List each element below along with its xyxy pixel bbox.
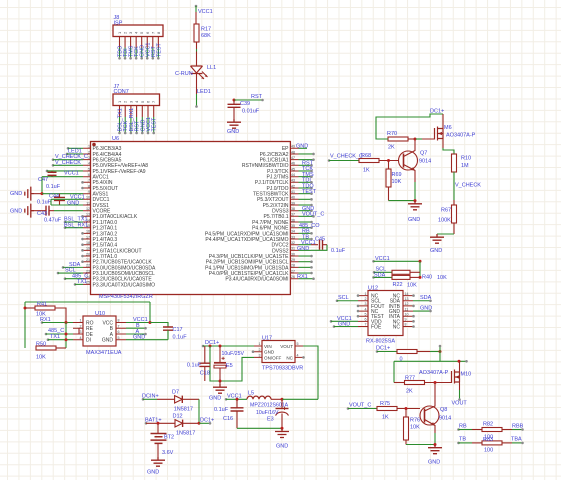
wire DC1+ loop to ON/OFF bbox=[210, 346, 254, 381]
svg-text:BT2: BT2 bbox=[164, 435, 174, 441]
svg-text:U6: U6 bbox=[112, 136, 119, 142]
wire C16 bottom to GND node bbox=[237, 427, 282, 429]
wire pin40 stub bbox=[299, 198, 312, 200]
resistor R67 100K bbox=[453, 200, 455, 205]
ground U17 bbox=[219, 381, 221, 384]
svg-text:R70: R70 bbox=[387, 131, 397, 137]
svg-text:1: 1 bbox=[80, 319, 82, 323]
svg-text:44: 44 bbox=[291, 173, 295, 177]
svg-text:P3.3/UCA0TXD/UCA0SIMO: P3.3/UCA0TXD/UCA0SIMO bbox=[93, 282, 156, 288]
J7 pin wires bbox=[119, 106, 121, 118]
svg-text:68K: 68K bbox=[201, 33, 211, 39]
svg-text:DC1+: DC1+ bbox=[376, 345, 390, 351]
svg-text:14: 14 bbox=[405, 292, 409, 296]
ground R67 bbox=[430, 234, 444, 243]
svg-text:47: 47 bbox=[291, 156, 295, 160]
svg-text:4: 4 bbox=[297, 354, 299, 358]
wire R76 to GND rail bbox=[405, 440, 407, 445]
connector J7 CON7 bbox=[113, 94, 160, 106]
svg-text:E5: E5 bbox=[226, 363, 233, 369]
resistor R69 10K bbox=[388, 161, 390, 170]
svg-text:17: 17 bbox=[86, 235, 90, 239]
net TB bbox=[457, 442, 460, 445]
svg-text:37: 37 bbox=[291, 213, 295, 217]
net VCC1 DVCC1 pin10 bbox=[51, 198, 83, 200]
net TX1 to U10 bbox=[47, 338, 50, 341]
svg-text:C39: C39 bbox=[240, 101, 250, 107]
svg-text:2: 2 bbox=[259, 348, 261, 352]
wire pin7 XIN stub bbox=[81, 181, 84, 184]
wire D7 to DC1+ node bbox=[182, 398, 199, 400]
wire R17 to LED bbox=[196, 42, 198, 49]
net DC1+ at U17 bbox=[202, 345, 205, 348]
svg-text:22: 22 bbox=[86, 264, 90, 268]
svg-text:2K: 2K bbox=[406, 389, 413, 395]
junction gate collector bbox=[434, 381, 437, 384]
svg-text:TEST: TEST bbox=[156, 43, 162, 57]
svg-text:13: 13 bbox=[405, 297, 409, 301]
net VOUT_C bbox=[347, 407, 350, 410]
svg-text:35: 35 bbox=[291, 224, 295, 228]
junction R68 R69 bbox=[387, 159, 390, 162]
svg-text:4: 4 bbox=[365, 307, 367, 311]
svg-text:C43: C43 bbox=[37, 211, 47, 217]
svg-text:3: 3 bbox=[80, 330, 82, 334]
junction Q7 collector R70 bbox=[414, 138, 417, 141]
svg-text:RBB: RBB bbox=[512, 423, 524, 429]
svg-text:6: 6 bbox=[118, 330, 120, 334]
wire VCC1 rail down bbox=[419, 261, 421, 277]
LED LL1 C-RUN bbox=[191, 66, 203, 74]
svg-text:21: 21 bbox=[86, 258, 90, 262]
junction AVSS1 GND bbox=[41, 192, 44, 195]
svg-text:RB: RB bbox=[459, 423, 467, 429]
svg-text:P3.4/UCA0RXD/UCA0SOMI: P3.4/UCA0RXD/UCA0SOMI bbox=[225, 277, 288, 283]
junction BAT1 BT2 bbox=[157, 422, 160, 425]
wire pin36 stub bbox=[299, 221, 312, 223]
net LED1 pin2 bbox=[66, 153, 69, 156]
net SDA to R40 bbox=[372, 276, 375, 279]
junction C18 top bbox=[209, 345, 212, 348]
wire pin13 stub bbox=[81, 215, 84, 218]
net RBB bbox=[502, 429, 512, 431]
svg-text:M6: M6 bbox=[444, 125, 452, 131]
svg-text:GND: GND bbox=[209, 396, 221, 402]
svg-text:9: 9 bbox=[88, 190, 90, 194]
svg-text:36: 36 bbox=[291, 218, 295, 222]
junction base R76 bbox=[405, 407, 408, 410]
resistor R22 10K bbox=[392, 270, 410, 274]
svg-text:VCC1: VCC1 bbox=[375, 256, 390, 262]
svg-text:R77: R77 bbox=[405, 376, 415, 382]
junction TX1 bbox=[65, 338, 68, 341]
svg-text:0.01uF: 0.01uF bbox=[242, 109, 260, 115]
svg-text:NC: NC bbox=[393, 324, 401, 330]
svg-text:10: 10 bbox=[86, 196, 90, 200]
mosfet M6 AO3407A-P bbox=[435, 127, 444, 141]
svg-text:U17: U17 bbox=[262, 335, 272, 341]
battery BT2 3.6V bbox=[157, 423, 159, 433]
svg-text:10uF/16V: 10uF/16V bbox=[256, 410, 279, 416]
svg-text:GND: GND bbox=[147, 470, 159, 476]
net RX1 to U10 bbox=[41, 321, 44, 324]
wire VCC1 to C17 bbox=[150, 323, 168, 328]
svg-text:10K: 10K bbox=[437, 275, 447, 281]
svg-text:9014: 9014 bbox=[419, 158, 431, 164]
wires pins30-27 stubs bbox=[299, 255, 312, 257]
svg-text:1K: 1K bbox=[363, 168, 370, 174]
diode D12 1N5817 bbox=[175, 420, 183, 427]
svg-text:0.1uF: 0.1uF bbox=[331, 248, 346, 254]
svg-text:L5: L5 bbox=[248, 390, 254, 396]
wire pin48 stub bbox=[299, 153, 314, 155]
svg-text:LED1: LED1 bbox=[197, 89, 211, 95]
ground left of C43 bbox=[25, 204, 34, 218]
wire pin39 stub bbox=[299, 204, 312, 206]
svg-text:2K: 2K bbox=[388, 145, 395, 151]
resistor R83 100 bbox=[472, 442, 482, 444]
svg-text:46: 46 bbox=[291, 162, 295, 166]
svg-text:41: 41 bbox=[291, 190, 295, 194]
net SCL pin23 bbox=[57, 272, 60, 275]
svg-text:29: 29 bbox=[291, 258, 295, 262]
svg-text:20: 20 bbox=[86, 252, 90, 256]
resistor R10 1M bbox=[452, 154, 457, 172]
MCU U6 MSP430F5342IRGZR body bbox=[91, 142, 291, 295]
wire R77 to gate bbox=[425, 382, 452, 384]
svg-text:11: 11 bbox=[86, 201, 90, 205]
svg-text:SCL: SCL bbox=[338, 295, 349, 301]
svg-text:2: 2 bbox=[365, 297, 367, 301]
svg-text:LL1: LL1 bbox=[207, 65, 216, 71]
svg-text:33: 33 bbox=[291, 235, 295, 239]
svg-text:V_CHECK_C: V_CHECK_C bbox=[330, 153, 363, 159]
net V_CHECK pin4 bbox=[52, 164, 55, 167]
net VCC1 U12 pin6 bbox=[330, 320, 333, 323]
capacitor E5 10uF/25V polarized bbox=[219, 346, 221, 362]
net GND pin31 bbox=[299, 249, 312, 251]
svg-text:DC1+: DC1+ bbox=[430, 108, 444, 114]
net TBA bbox=[502, 442, 512, 444]
svg-text:R67: R67 bbox=[441, 208, 451, 214]
svg-text:6: 6 bbox=[88, 173, 90, 177]
junction VCC1 U10 bbox=[149, 321, 152, 324]
net VOUT_C pin37 bbox=[299, 215, 314, 217]
svg-text:R17: R17 bbox=[201, 27, 211, 33]
svg-text:12: 12 bbox=[405, 302, 409, 306]
svg-text:D12: D12 bbox=[173, 414, 183, 420]
wire VCC1 down to GND junction bbox=[41, 177, 43, 194]
svg-text:R68: R68 bbox=[361, 153, 371, 159]
svg-text:GND: GND bbox=[67, 200, 79, 206]
wire vertical RO-DI tie bbox=[65, 323, 67, 349]
svg-text:0.1uF: 0.1uF bbox=[46, 184, 61, 190]
net GND pin38 bbox=[299, 210, 312, 212]
resistor R 0 ohm bbox=[397, 350, 417, 354]
svg-text:V_CHECK: V_CHECK bbox=[455, 183, 481, 189]
net TEST pin41 bbox=[299, 193, 312, 195]
IC U10 MAX3471EUA body bbox=[83, 316, 116, 346]
svg-text:18: 18 bbox=[86, 241, 90, 245]
wire M10 drain to VOUT bbox=[459, 382, 461, 390]
svg-text:7: 7 bbox=[118, 324, 120, 328]
wire RE-DE tie bbox=[78, 328, 80, 334]
junction 485_C bbox=[65, 333, 68, 336]
net 485_C to U10 bbox=[45, 333, 48, 336]
svg-text:R22: R22 bbox=[393, 282, 403, 288]
wire VCC1 to R17 bbox=[195, 12, 197, 24]
net SDA pin22 bbox=[62, 266, 65, 269]
svg-text:GND: GND bbox=[428, 460, 440, 466]
svg-text:TEST: TEST bbox=[302, 189, 317, 195]
junction E3 top bbox=[281, 398, 284, 401]
svg-text:D7: D7 bbox=[172, 390, 179, 396]
svg-text:DC1+: DC1+ bbox=[200, 418, 214, 424]
net TB pin33 bbox=[299, 238, 312, 240]
svg-text:10uF/25V: 10uF/25V bbox=[222, 351, 245, 357]
resistor R82 100 bbox=[472, 429, 482, 431]
svg-text:R83: R83 bbox=[483, 437, 493, 443]
junction emitter GND bbox=[414, 199, 417, 202]
capacitor C39 0.01uF bbox=[233, 100, 235, 104]
U6 left pin leads bbox=[83, 148, 91, 284]
net VCC1 top bbox=[195, 5, 198, 8]
svg-text:U10: U10 bbox=[95, 311, 105, 317]
svg-text:9014: 9014 bbox=[439, 415, 451, 421]
net TDO pin42 bbox=[299, 187, 312, 189]
svg-text:TB: TB bbox=[459, 437, 466, 443]
svg-text:TX1: TX1 bbox=[77, 279, 87, 285]
net GND U12 pin7 bbox=[333, 325, 336, 328]
svg-text:10K: 10K bbox=[392, 179, 402, 185]
wire VCORE pin12 bbox=[54, 210, 83, 212]
svg-text:R76: R76 bbox=[410, 418, 420, 424]
svg-text:VIN: VIN bbox=[264, 344, 272, 349]
ground Q8 bbox=[428, 445, 442, 454]
svg-text:M10: M10 bbox=[461, 372, 472, 378]
net GND EP pin49 bbox=[299, 147, 308, 149]
capacitor C18 0.1uF bbox=[204, 346, 206, 363]
junction Q8 emitter GND bbox=[434, 443, 437, 446]
svg-text:GND: GND bbox=[133, 335, 145, 341]
resistor R75 1K bbox=[377, 407, 397, 411]
svg-text:R82: R82 bbox=[483, 422, 493, 428]
wire R69 to GND rail bbox=[388, 187, 390, 201]
svg-text:DCIN+: DCIN+ bbox=[142, 394, 159, 400]
svg-text:MAX3471EUA: MAX3471EUA bbox=[86, 350, 122, 356]
svg-text:3: 3 bbox=[259, 354, 261, 358]
net SCL U12 pin2 bbox=[336, 299, 339, 302]
net 485_CO pin35 bbox=[299, 227, 312, 229]
junction RX1 R41 bbox=[65, 321, 68, 324]
svg-text:NC: NC bbox=[286, 355, 293, 360]
net TCK pin45 bbox=[299, 170, 312, 172]
svg-text:VCC1: VCC1 bbox=[64, 171, 79, 177]
svg-text:FOE: FOE bbox=[371, 324, 382, 330]
svg-text:R50: R50 bbox=[36, 341, 46, 347]
svg-text:16: 16 bbox=[86, 230, 90, 234]
wire R67 to GND bbox=[453, 223, 455, 234]
svg-text:1N5817: 1N5817 bbox=[174, 407, 193, 413]
svg-text:VOUT: VOUT bbox=[452, 401, 468, 407]
net DCIN+ bbox=[142, 398, 145, 401]
wire R41 right down bbox=[55, 308, 66, 323]
svg-text:100: 100 bbox=[484, 448, 493, 454]
svg-text:30: 30 bbox=[291, 252, 295, 256]
svg-text:DI: DI bbox=[86, 338, 91, 344]
svg-text:1N5817: 1N5817 bbox=[176, 431, 195, 437]
svg-text:10K: 10K bbox=[410, 425, 420, 431]
U12 pin1 stub bbox=[357, 294, 360, 297]
svg-text:34: 34 bbox=[291, 230, 295, 234]
svg-text:E3: E3 bbox=[267, 417, 274, 423]
mosfet M10 AO3407A-P bbox=[452, 370, 460, 384]
resistor R40 10K bbox=[392, 275, 410, 279]
svg-text:3: 3 bbox=[365, 302, 367, 306]
svg-text:VOUT: VOUT bbox=[280, 344, 293, 349]
wire node to VOUT riser bbox=[282, 398, 318, 400]
svg-text:R40: R40 bbox=[422, 275, 432, 281]
wire LED to LED1 net bbox=[196, 74, 198, 95]
svg-text:GND: GND bbox=[408, 217, 420, 223]
wire R68 to Q7 base bbox=[379, 160, 399, 162]
svg-text:8: 8 bbox=[118, 319, 120, 323]
svg-text:27: 27 bbox=[291, 269, 295, 273]
svg-text:RX-8025SA: RX-8025SA bbox=[366, 339, 395, 345]
net VCC1 AVCC1 pin6 bbox=[42, 176, 83, 178]
svg-text:3.6V: 3.6V bbox=[162, 450, 174, 456]
net RST pin46 bbox=[299, 164, 312, 166]
net DC1+ label bottom bbox=[199, 422, 209, 424]
junction M10 source bbox=[458, 360, 461, 363]
net VCC1 node bbox=[225, 398, 228, 401]
svg-text:Q8: Q8 bbox=[440, 407, 447, 413]
wire pin47 stub bbox=[299, 159, 314, 161]
net SCL to R22 bbox=[373, 271, 376, 274]
svg-text:4: 4 bbox=[88, 162, 90, 166]
svg-text:GND: GND bbox=[420, 306, 432, 312]
svg-text:45: 45 bbox=[291, 167, 295, 171]
svg-text:10: 10 bbox=[405, 312, 409, 316]
svg-text:8: 8 bbox=[88, 184, 90, 188]
wire AVSS1 pin9 bbox=[42, 193, 83, 195]
svg-text:6: 6 bbox=[365, 318, 367, 322]
inductor L5 MPZ2012S601A bbox=[247, 396, 271, 399]
net GND U10 pin5 bbox=[126, 339, 168, 341]
svg-text:5: 5 bbox=[118, 336, 120, 340]
capacitor C47 0.1uF bbox=[51, 171, 53, 172]
svg-text:C17: C17 bbox=[173, 327, 183, 333]
svg-text:0.1uF: 0.1uF bbox=[214, 407, 229, 413]
svg-text:R69: R69 bbox=[392, 172, 402, 178]
pins 16-21 stubs bbox=[81, 232, 84, 235]
svg-text:38: 38 bbox=[291, 207, 295, 211]
wire BT2 to GND bbox=[157, 443, 159, 457]
svg-text:1: 1 bbox=[88, 145, 90, 149]
svg-text:49: 49 bbox=[291, 145, 295, 149]
svg-text:GND: GND bbox=[10, 191, 22, 197]
net DC1+ bottom right bbox=[376, 350, 379, 353]
svg-text:R10: R10 bbox=[461, 156, 471, 162]
net TX1 pin25 bbox=[74, 283, 77, 286]
svg-text:2: 2 bbox=[80, 324, 82, 328]
net VCC1 U10 pin8 bbox=[126, 322, 150, 324]
wire pin1 P6.3 stub bbox=[67, 147, 70, 150]
net B U10 pin7 bbox=[126, 327, 145, 329]
wire D12 to DC1+ node bbox=[183, 422, 199, 424]
connector J8 ISP bbox=[113, 25, 163, 37]
junction R41 left bbox=[24, 307, 27, 310]
svg-text:1K: 1K bbox=[382, 414, 389, 420]
svg-text:VOUT_C: VOUT_C bbox=[302, 212, 324, 218]
net A U10 pin6 bbox=[126, 333, 145, 335]
U12 pin14 stub bbox=[412, 294, 415, 297]
wire rail down to VCC1 junction bbox=[149, 302, 151, 323]
ground E3 bbox=[275, 428, 289, 437]
svg-text:11: 11 bbox=[405, 307, 409, 311]
svg-text:RST: RST bbox=[251, 94, 263, 100]
net TMS pin44 bbox=[299, 176, 312, 178]
svg-text:C-RUN: C-RUN bbox=[175, 71, 193, 77]
U12 pins3-5 stubs bbox=[357, 305, 360, 308]
net BSL_RX1 pin15 bbox=[64, 226, 67, 229]
svg-text:TX1: TX1 bbox=[50, 334, 60, 340]
svg-text:28: 28 bbox=[291, 264, 295, 268]
J8 wire end dots bbox=[118, 57, 121, 60]
svg-text:0.1uF: 0.1uF bbox=[187, 363, 202, 369]
RTC U12 RX-8025SA body bbox=[368, 291, 403, 336]
svg-text:1: 1 bbox=[259, 342, 261, 346]
resistor R17 68K bbox=[194, 24, 199, 42]
svg-text:10K: 10K bbox=[407, 283, 417, 289]
net TDI pin43 bbox=[299, 181, 312, 183]
wire source rail bbox=[394, 360, 466, 362]
net SDA U12 pin13 bbox=[413, 300, 430, 302]
ground below C39 bbox=[227, 119, 241, 128]
capacitor C16 0.1uF bbox=[236, 399, 238, 408]
svg-text:100K: 100K bbox=[438, 217, 451, 223]
resistor R77 2K bbox=[405, 381, 425, 385]
LDO U17 TPS70933DBVR body bbox=[262, 341, 295, 363]
capacitor C45 0.1uF bbox=[311, 244, 318, 246]
svg-text:1M: 1M bbox=[461, 163, 469, 169]
ground left of AVSS1 bbox=[25, 187, 34, 201]
svg-text:40: 40 bbox=[291, 196, 295, 200]
svg-text:7: 7 bbox=[365, 323, 367, 327]
net V_CHECK_C wire to R68 bbox=[328, 159, 331, 162]
svg-text:GND: GND bbox=[430, 248, 442, 254]
wire rail down bbox=[439, 352, 441, 362]
wire M10 source up bbox=[459, 361, 461, 372]
svg-text:5: 5 bbox=[297, 342, 299, 346]
U17 pin2 stub dot bbox=[252, 350, 255, 353]
wire rail to R77 bbox=[393, 361, 395, 382]
svg-text:TPS70933DBVR: TPS70933DBVR bbox=[262, 365, 303, 371]
wire pin8 XOUT stub bbox=[81, 187, 84, 190]
svg-text:RX1: RX1 bbox=[40, 317, 51, 323]
wire M6 drain down bbox=[442, 139, 444, 149]
net RB pin34 bbox=[299, 232, 312, 234]
net GND U12 pin11 bbox=[413, 310, 430, 312]
diode D7 1N5817 bbox=[157, 398, 175, 400]
U12 pin12 stub bbox=[412, 305, 415, 308]
junction E3 bottom bbox=[281, 427, 284, 430]
wire rail down left bbox=[24, 302, 26, 348]
svg-text:12: 12 bbox=[86, 207, 90, 211]
U10 pin leads bbox=[73, 323, 126, 340]
svg-text:0.1uF: 0.1uF bbox=[37, 200, 52, 206]
svg-text:SDA: SDA bbox=[374, 272, 386, 278]
